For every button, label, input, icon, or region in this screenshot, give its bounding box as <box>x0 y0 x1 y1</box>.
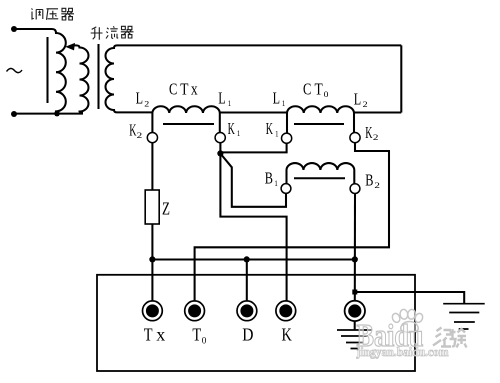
wire: D lead <box>246 260 248 301</box>
terminal E (right) <box>345 301 365 321</box>
terminal B1 <box>281 184 291 194</box>
svg-text:C: C <box>169 79 177 98</box>
wire: loop bottom right to CT0 <box>354 111 401 113</box>
wire: AC bottom <box>14 113 83 115</box>
wire: AC top to variac <box>14 28 52 30</box>
watermark 经验 <box>433 328 467 348</box>
wire: B2 down to test set <box>354 194 356 301</box>
terminal K <box>276 301 296 321</box>
svg-text:1: 1 <box>282 98 285 108</box>
svg-text:B: B <box>265 168 273 187</box>
terminal B2 <box>350 184 360 194</box>
transformer CTx primary coil <box>152 106 219 113</box>
svg-text:K: K <box>228 119 236 138</box>
wire: Z down to Tx terminal <box>151 224 153 301</box>
svg-text:x: x <box>156 325 165 345</box>
wire: junction down to K terminal <box>220 153 286 300</box>
B coil secondary bar <box>294 177 345 179</box>
svg-text:K: K <box>282 324 292 344</box>
svg-text:Z: Z <box>162 199 170 219</box>
svg-text:2: 2 <box>137 130 143 140</box>
wire: loop top <box>117 44 401 46</box>
svg-text:D: D <box>242 324 253 344</box>
svg-text:T: T <box>144 325 153 345</box>
svg-text:B: B <box>365 170 373 189</box>
svg-text:0: 0 <box>202 335 207 345</box>
wire: booster secondary to CTx <box>117 111 152 113</box>
wire: junction to K1 CT0 <box>220 143 286 152</box>
svg-text:K: K <box>266 119 274 138</box>
terminal K1 of CTx <box>215 133 225 143</box>
terminal K1 of CT0 <box>282 133 292 143</box>
svg-text:x: x <box>191 79 198 98</box>
variac wiper arrow <box>72 44 76 46</box>
svg-text:T: T <box>180 79 189 98</box>
terminal T0 <box>185 301 205 321</box>
wire: CTx K1 lead <box>219 113 221 133</box>
junction square on B2 wire <box>352 290 357 295</box>
terminal Tx <box>143 301 163 321</box>
svg-text:1: 1 <box>228 98 231 108</box>
external ground symbol <box>443 304 485 329</box>
terminal K2 of CT0 <box>350 133 360 143</box>
wire: K2 CT0 to T0 terminal <box>195 143 389 301</box>
wire: CT0 K2 lead <box>353 113 355 133</box>
wire: K1 CTx down to junction <box>219 143 221 154</box>
svg-text:C: C <box>303 79 311 98</box>
wire: CTx K2 lead <box>151 113 153 133</box>
impedance Z <box>145 190 159 224</box>
svg-text:0: 0 <box>324 89 329 99</box>
wire: junction diagonal to B1 <box>221 155 286 207</box>
wire: loop right side <box>400 45 402 112</box>
AC source terminal dot bottom <box>11 111 17 117</box>
variac winding 调压器 <box>52 29 66 114</box>
variac core <box>46 37 48 103</box>
booster core <box>97 44 99 109</box>
junction dot on B2 wire <box>352 256 358 262</box>
watermark baidu paw <box>391 309 424 333</box>
svg-text:1: 1 <box>274 178 277 188</box>
junction dot variac bottom <box>54 111 60 117</box>
svg-text:L: L <box>354 89 361 108</box>
wire: to external ground <box>355 292 464 303</box>
svg-text:K: K <box>129 120 137 139</box>
svg-text:1: 1 <box>275 129 278 139</box>
wire: bus Tx-D-B2 <box>152 258 354 260</box>
test set box <box>97 275 415 371</box>
svg-text:2: 2 <box>363 99 368 109</box>
svg-text:1: 1 <box>237 128 240 138</box>
svg-text:T: T <box>315 79 324 98</box>
svg-text:jingyan.baidu.com: jingyan.baidu.com <box>356 345 449 359</box>
junction dot Z/Tx node <box>149 256 155 262</box>
label 调压器 <box>32 8 75 20</box>
AC source terminal dot top <box>11 26 17 32</box>
wire: CT0 K1 lead <box>286 113 288 133</box>
junction dot D node <box>244 256 250 262</box>
svg-text:2: 2 <box>374 180 380 190</box>
terminal D <box>237 301 257 321</box>
svg-text:L: L <box>136 89 143 108</box>
svg-text:L: L <box>218 89 225 108</box>
secondary winding B coil <box>287 163 355 184</box>
svg-text:K: K <box>365 123 373 142</box>
booster T2 secondary winding <box>106 45 118 112</box>
junction dot node A <box>217 150 223 156</box>
terminal K2 of CTx <box>147 133 157 143</box>
label 升流器 <box>91 26 134 40</box>
transformer CT0 primary coil <box>287 106 354 113</box>
CT0 secondary bar <box>294 123 344 125</box>
AC source symbol <box>7 68 23 72</box>
wire: E terminal to internal ground <box>354 321 356 329</box>
wire: K2 CTx down to Z <box>151 143 153 190</box>
svg-text:T: T <box>192 324 201 344</box>
internal ground symbol <box>337 330 372 349</box>
CTx secondary bar <box>163 123 214 125</box>
svg-text:2: 2 <box>144 98 149 108</box>
svg-text:L: L <box>273 88 280 107</box>
booster T2 primary winding <box>74 45 89 112</box>
svg-text:2: 2 <box>373 132 379 142</box>
wire: CTx to CT0 <box>220 111 287 113</box>
